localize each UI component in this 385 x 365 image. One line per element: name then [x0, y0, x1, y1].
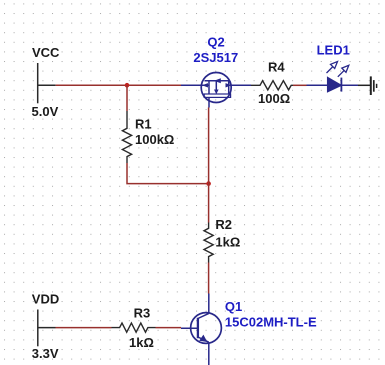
svg-text:Q1: Q1 [225, 299, 242, 314]
channel bar [205, 80, 230, 82]
left vertical [208, 81, 210, 94]
substrate arrow on bar [214, 78, 221, 83]
source arrow [202, 83, 208, 87]
BJT Q1 [181, 294, 221, 358]
LED LED1 [307, 62, 359, 92]
center stub [215, 81, 217, 90]
svg-text:100Ω: 100Ω [258, 91, 290, 106]
collector pin [208, 294, 210, 314]
gate pin [208, 97, 210, 107]
base pin [181, 327, 198, 329]
resistor R2 [204, 223, 213, 263]
wire R2 to Q1 collector [208, 263, 210, 294]
svg-text:1kΩ: 1kΩ [129, 335, 154, 350]
wire R1 bottom [127, 163, 209, 184]
resistor R3 [112, 323, 156, 332]
emitter pin [208, 342, 210, 357]
svg-text:1kΩ: 1kΩ [215, 235, 240, 250]
power terminal VCC [38, 63, 56, 103]
emission arrow 2 [338, 65, 349, 77]
wire R4 to LED1 [293, 84, 307, 86]
junction gate node [206, 181, 211, 186]
wire VCC to Q2 source [56, 84, 181, 86]
emission arrow 1 [327, 62, 338, 74]
svg-text:100kΩ: 100kΩ [135, 132, 174, 147]
svg-text:R3: R3 [134, 305, 151, 320]
svg-text:R4: R4 [268, 59, 285, 74]
drain arrow [226, 83, 232, 87]
wire Q2 gate to R2 [208, 108, 210, 223]
wire R3 to Q1 base [156, 327, 182, 329]
right vertical [228, 81, 230, 94]
gate plate [204, 94, 230, 97]
resistor R1 [122, 111, 131, 163]
svg-text:VDD: VDD [32, 291, 59, 306]
svg-text:Q2: Q2 [207, 35, 224, 50]
junction at R1 top [125, 83, 130, 88]
svg-text:2SJ517: 2SJ517 [193, 50, 238, 65]
emitter diagonal [198, 337, 209, 342]
svg-text:5.0V: 5.0V [32, 104, 59, 119]
svg-text:R1: R1 [135, 116, 152, 131]
ground [358, 76, 377, 95]
svg-text:VCC: VCC [32, 45, 60, 60]
source pin line [181, 84, 209, 86]
emitter arrow [199, 335, 207, 342]
svg-text:R2: R2 [215, 217, 232, 232]
svg-text:15C02MH-TL-E: 15C02MH-TL-E [225, 314, 317, 329]
wire R1 top lead [126, 85, 128, 111]
base bar [197, 318, 199, 338]
down arrow on stub [214, 90, 219, 95]
power terminal VDD [38, 310, 56, 347]
resistor R4 [251, 81, 293, 90]
svg-text:3.3V: 3.3V [32, 346, 59, 361]
wire VDD to R3 [56, 327, 112, 329]
svg-text:LED1: LED1 [317, 42, 350, 57]
collector diagonal [198, 313, 209, 318]
drain pin line [229, 84, 251, 86]
p-MOSFET Q2 [181, 73, 251, 108]
wire Q1 emitter to bottom edge [208, 357, 210, 365]
